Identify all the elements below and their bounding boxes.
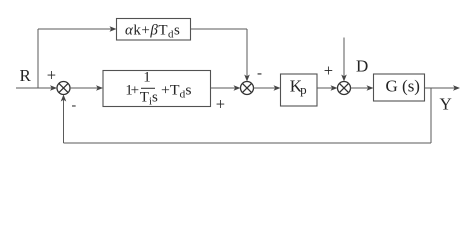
svg-text:Y: Y [440, 95, 452, 114]
svg-text:R: R [20, 66, 32, 85]
wire PID block to summing junction S2 [211, 85, 241, 91]
wire R input to summing junction S1 [16, 85, 57, 91]
svg-text:G (s): G (s) [386, 77, 420, 96]
svg-text:+: + [324, 61, 333, 80]
wire S1 to PID block [70, 85, 103, 91]
svg-text:+: + [216, 94, 225, 113]
wire S2 to Kp block [254, 85, 281, 91]
wire derivative block output down to summing junction S2 [191, 29, 250, 82]
wire branch from R line up and to derivative block [38, 26, 117, 88]
svg-text:+: + [131, 83, 139, 99]
svg-text:+: + [47, 65, 56, 84]
block U2: PID controller 1 + 1/(Ti s) + Td s [103, 70, 211, 108]
svg-text:1: 1 [143, 70, 151, 86]
svg-text:-: - [72, 98, 77, 113]
summing junction S3 [338, 82, 351, 95]
block U4: plant G(s) [374, 74, 425, 101]
summing junction S1 [57, 82, 70, 95]
svg-text:D: D [356, 57, 368, 76]
wire plant output to Y [425, 85, 461, 91]
wire feedback path from output tap back to S1 [61, 88, 431, 143]
block U1: alpha*k + beta*Td*s (setpoint weighting) [117, 19, 191, 41]
block U3: proportional gain Kp [281, 74, 318, 106]
svg-text:-: - [257, 66, 262, 82]
wire D disturbance down into summing junction S3 [341, 38, 347, 82]
wire Kp block to summing junction S3 [317, 85, 338, 91]
svg-text:+Tds: +Tds [161, 83, 192, 101]
summing junction S2 [241, 82, 254, 95]
svg-text:Tis: Tis [140, 90, 158, 108]
wire S3 to plant block G(s) [351, 85, 374, 91]
